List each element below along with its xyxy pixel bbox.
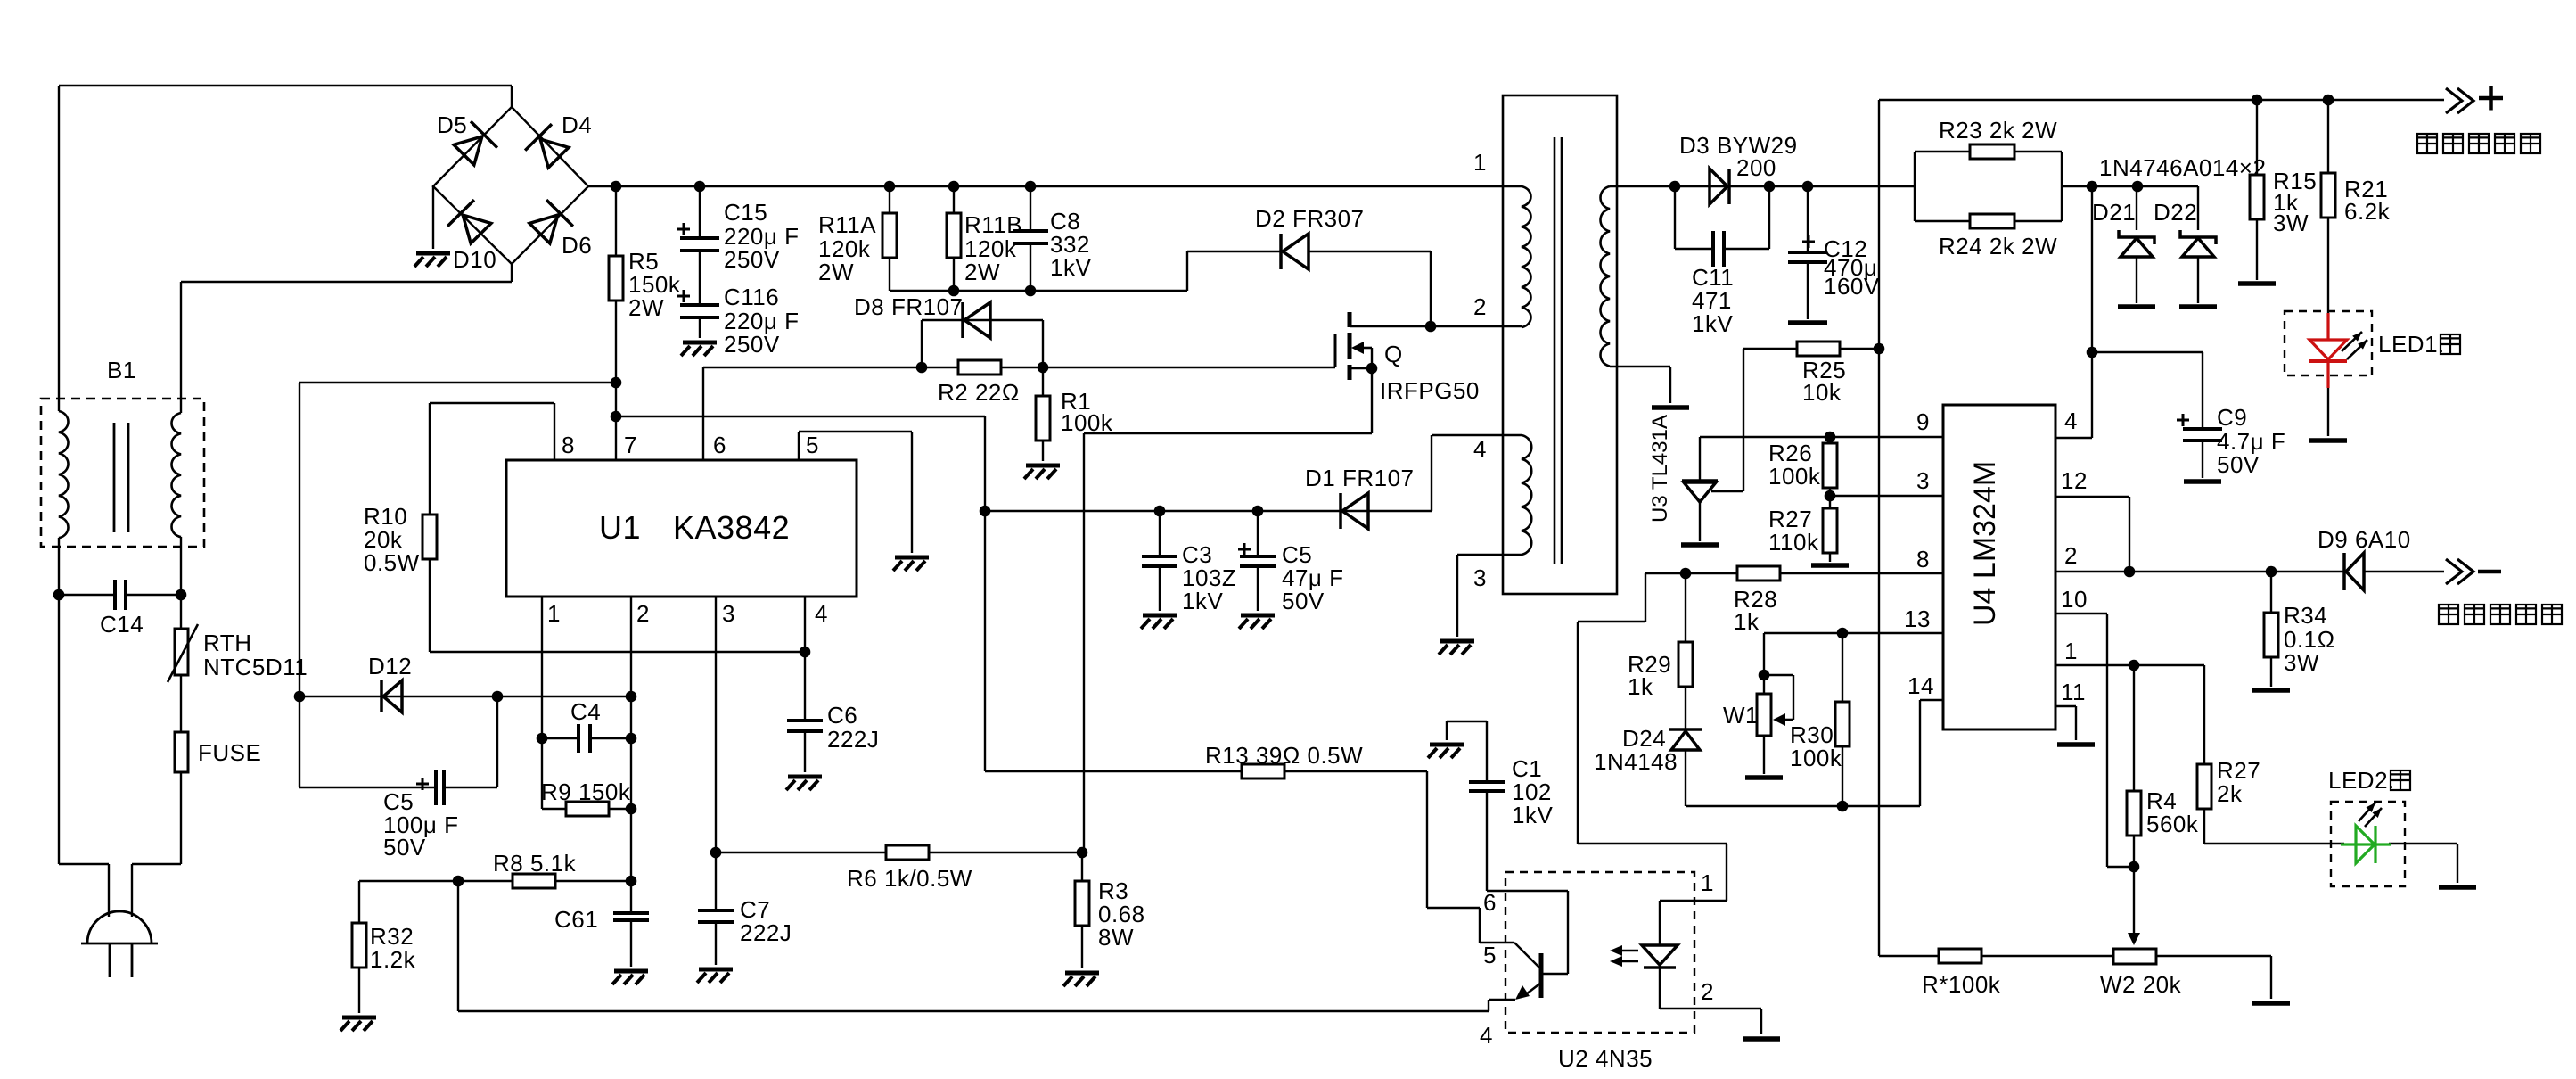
svg-text:1: 1 xyxy=(1473,149,1487,176)
svg-text:R11B: R11B xyxy=(964,211,1022,238)
svg-text:13: 13 xyxy=(1904,605,1931,632)
svg-text:R24 2k 2W: R24 2k 2W xyxy=(1939,233,2057,259)
svg-text:LED2.: LED2. xyxy=(2328,767,2395,794)
svg-text:C4: C4 xyxy=(570,698,601,725)
svg-text:250V: 250V xyxy=(724,246,780,273)
svg-text:C6: C6 xyxy=(827,702,857,729)
svg-text:2k: 2k xyxy=(2217,780,2243,807)
svg-text:6.2k: 6.2k xyxy=(2344,198,2391,225)
svg-text:D4: D4 xyxy=(562,111,592,138)
svg-text:1N4148: 1N4148 xyxy=(1594,748,1678,775)
svg-text:NTC5D11: NTC5D11 xyxy=(203,654,308,680)
svg-text:2W: 2W xyxy=(964,259,1000,285)
svg-text:2W: 2W xyxy=(628,294,664,321)
svg-text:6: 6 xyxy=(1483,889,1497,916)
svg-text:11: 11 xyxy=(2061,679,2086,705)
svg-text:Q: Q xyxy=(1384,341,1403,367)
svg-text:100k: 100k xyxy=(1768,463,1821,490)
svg-text:9: 9 xyxy=(1916,408,1930,435)
svg-text:14: 14 xyxy=(1907,672,1934,699)
svg-text:R13 39Ω 0.5W: R13 39Ω 0.5W xyxy=(1205,742,1363,769)
svg-text:3: 3 xyxy=(722,600,735,627)
svg-text:12: 12 xyxy=(2061,467,2088,494)
svg-text:160V: 160V xyxy=(1824,273,1880,300)
svg-text:50V: 50V xyxy=(1282,588,1325,614)
svg-text:U1: U1 xyxy=(599,509,641,546)
svg-text:C15: C15 xyxy=(724,199,767,226)
svg-text:D22: D22 xyxy=(2154,199,2197,226)
svg-text:4: 4 xyxy=(2064,408,2078,434)
svg-text:50V: 50V xyxy=(2217,451,2260,478)
svg-text:7: 7 xyxy=(624,432,637,458)
svg-text:W2 20k: W2 20k xyxy=(2100,971,2182,998)
svg-text:4: 4 xyxy=(815,600,828,627)
svg-text:3W: 3W xyxy=(2273,210,2309,236)
svg-text:D21: D21 xyxy=(2092,199,2136,226)
svg-text:IRFPG50: IRFPG50 xyxy=(1380,377,1480,404)
svg-text:1.2k: 1.2k xyxy=(370,946,416,973)
svg-text:R2 22Ω: R2 22Ω xyxy=(938,379,1020,406)
svg-text:2: 2 xyxy=(636,600,650,627)
svg-text:250V: 250V xyxy=(724,331,780,358)
svg-text:6: 6 xyxy=(713,432,726,458)
svg-text:LED1.: LED1. xyxy=(2378,331,2445,358)
svg-text:1k: 1k xyxy=(1628,673,1653,700)
svg-text:D12: D12 xyxy=(368,653,412,680)
svg-text:2: 2 xyxy=(1701,978,1714,1005)
svg-text:110k: 110k xyxy=(1768,529,1819,556)
svg-text:8: 8 xyxy=(562,432,575,458)
svg-text:1: 1 xyxy=(547,600,561,627)
svg-text:5: 5 xyxy=(806,432,819,458)
svg-text:1k: 1k xyxy=(1734,608,1760,635)
svg-text:1kV: 1kV xyxy=(1512,802,1553,828)
svg-text:KA3842: KA3842 xyxy=(673,509,790,546)
svg-text:8W: 8W xyxy=(1098,924,1134,951)
svg-text:D2 FR307: D2 FR307 xyxy=(1255,205,1365,232)
svg-text:R8 5.1k: R8 5.1k xyxy=(493,850,577,877)
svg-text:D10: D10 xyxy=(453,246,496,273)
svg-text:3: 3 xyxy=(1473,564,1487,591)
svg-text:3W: 3W xyxy=(2284,649,2319,676)
svg-text:8: 8 xyxy=(1916,546,1930,572)
svg-text:1N4746A014×2: 1N4746A014×2 xyxy=(2099,154,2266,181)
svg-text:222J: 222J xyxy=(740,919,792,946)
svg-text:1: 1 xyxy=(2064,638,2078,664)
svg-text:0.5W: 0.5W xyxy=(364,549,420,576)
svg-text:1kV: 1kV xyxy=(1182,588,1223,614)
svg-text:R34: R34 xyxy=(2284,602,2327,629)
svg-text:100k: 100k xyxy=(1790,745,1842,771)
svg-text:10k: 10k xyxy=(1802,379,1842,406)
svg-text:1: 1 xyxy=(1701,869,1714,896)
svg-text:R23 2k 2W: R23 2k 2W xyxy=(1939,117,2057,144)
svg-text:R9 150k: R9 150k xyxy=(541,778,631,805)
svg-text:C116: C116 xyxy=(724,284,779,310)
svg-text:D5: D5 xyxy=(437,111,467,138)
svg-text:B1: B1 xyxy=(107,357,136,383)
svg-text:U3 TL431A: U3 TL431A xyxy=(1648,415,1672,523)
svg-text:560k: 560k xyxy=(2146,811,2199,837)
svg-text:FUSE: FUSE xyxy=(198,739,261,766)
svg-text:R6 1k/0.5W: R6 1k/0.5W xyxy=(847,865,972,892)
svg-text:1kV: 1kV xyxy=(1692,310,1733,337)
svg-text:3: 3 xyxy=(1916,467,1930,494)
svg-text:U4 LM324M: U4 LM324M xyxy=(1968,461,2002,626)
svg-text:50V: 50V xyxy=(383,834,426,861)
svg-text:5: 5 xyxy=(1483,942,1497,968)
svg-text:W1: W1 xyxy=(1723,702,1759,729)
svg-text:C9: C9 xyxy=(2217,404,2247,431)
svg-text:R*100k: R*100k xyxy=(1922,971,2001,998)
svg-text:D1 FR107: D1 FR107 xyxy=(1305,465,1415,491)
svg-text:RTH: RTH xyxy=(203,630,251,656)
svg-text:D8 FR107: D8 FR107 xyxy=(854,293,964,320)
svg-text:4: 4 xyxy=(1480,1022,1493,1049)
svg-text:2: 2 xyxy=(2064,542,2078,569)
svg-text:R11A: R11A xyxy=(818,211,876,238)
svg-text:C61: C61 xyxy=(554,906,598,933)
svg-text:U2 4N35: U2 4N35 xyxy=(1558,1045,1653,1072)
svg-text:100k: 100k xyxy=(1061,409,1113,436)
svg-text:4: 4 xyxy=(1473,435,1487,462)
svg-text:C14: C14 xyxy=(100,611,144,638)
svg-text:10: 10 xyxy=(2061,586,2088,613)
svg-text:2W: 2W xyxy=(818,259,854,285)
svg-text:2: 2 xyxy=(1473,293,1487,320)
svg-text:D9 6A10: D9 6A10 xyxy=(2318,526,2411,553)
svg-text:200: 200 xyxy=(1736,154,1776,181)
svg-text:D6: D6 xyxy=(562,232,592,259)
svg-text:1kV: 1kV xyxy=(1050,254,1091,281)
svg-text:222J: 222J xyxy=(827,726,879,753)
